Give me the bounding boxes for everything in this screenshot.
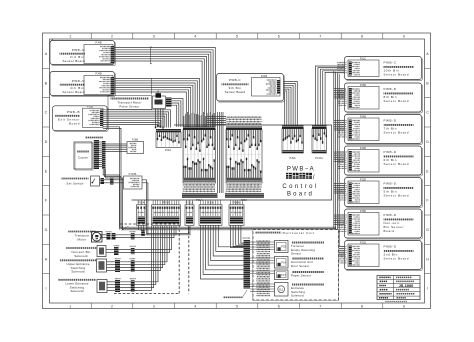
wires motor	[100, 234, 107, 236]
svg-text:G: G	[426, 228, 429, 232]
svg-text:4: 4	[194, 305, 196, 309]
svg-text:Sensor Board: Sensor Board	[384, 99, 410, 103]
svg-text:PJ6B: PJ6B	[132, 137, 138, 141]
connector PJ1A body	[183, 130, 216, 183]
wires non-sort solenoid	[106, 249, 114, 251]
label lower entrance switching solenoid	[58, 279, 96, 281]
svg-text:/Horizontal Unit: /Horizontal Unit	[282, 231, 315, 235]
label seigyo kiban kanji	[286, 173, 292, 179]
svg-text:Door Sensor: Door Sensor	[291, 264, 309, 268]
svg-text:PJ4A: PJ4A	[165, 148, 171, 152]
svg-text:PJ1A: PJ1A	[196, 198, 202, 202]
pin stub text PWB-D 7th Bin Sensor Board	[337, 120, 347, 122]
svg-text:PC6: PC6	[281, 246, 286, 249]
wires between PJ1A and PJ8A	[217, 112, 219, 193]
svg-text:H: H	[45, 257, 48, 261]
svg-text:4: 4	[194, 34, 196, 38]
wires set switch to PJ11A	[142, 180, 189, 234]
svg-text:Sensor Board: Sensor Board	[384, 162, 410, 166]
svg-text:7: 7	[319, 34, 321, 38]
label above horizontal unit strip	[243, 237, 251, 239]
label upper entrance switching solenoid	[60, 259, 96, 261]
svg-text:PWB-D: PWB-D	[384, 213, 397, 217]
svg-text:PJ2D: PJ2D	[360, 177, 366, 181]
pin table below PJ1A	[184, 184, 216, 186]
svg-text:Sensor Board: Sensor Board	[384, 72, 410, 76]
pin stub text PWB-D Non-sort Bin Sensor Board	[337, 214, 347, 216]
svg-text:JS-1000: JS-1000	[399, 283, 414, 288]
connector PJ1A top strip	[183, 127, 216, 130]
wires copier strips	[99, 141, 102, 143]
svg-text:I: I	[46, 287, 47, 291]
board PWB-C 10th Bin Sensor Board	[347, 59, 423, 81]
svg-text:C: C	[45, 111, 48, 115]
inline connectors on solenoid bundles	[131, 233, 135, 239]
board PWB-D 4th Bin Sensor Board	[52, 74, 116, 97]
pin stub text PWB-D 5th Bin Sensor Board	[337, 183, 347, 185]
wires copier to PJ6B	[106, 143, 128, 145]
wires PJ2A down to horizontal unit	[201, 226, 244, 280]
svg-text:6: 6	[278, 34, 280, 38]
connector motor a	[107, 233, 111, 240]
dashed box horizontal unit	[253, 230, 339, 301]
dashed unit boundary lower-left	[114, 292, 179, 294]
connector upper solenoid	[115, 260, 120, 272]
svg-text:7: 7	[319, 305, 321, 309]
label horizontal unit	[255, 232, 281, 234]
top ruler numbers	[43, 33, 431, 309]
svg-text:PJ8A: PJ8A	[241, 198, 247, 202]
svg-text:PJ5D: PJ5D	[360, 83, 366, 87]
svg-text:1: 1	[69, 34, 71, 38]
svg-text:/: /	[313, 174, 315, 181]
pin text column horizontal unit	[257, 240, 271, 242]
svg-text:PWB-D: PWB-D	[384, 244, 397, 248]
wires into PJ1A top	[183, 116, 185, 127]
svg-text:PJ3B: PJ3B	[87, 104, 93, 108]
svg-text:PWB-C: PWB-C	[229, 78, 241, 82]
wires 9th bin board to PJ9A	[284, 82, 298, 126]
svg-text:Pulse Sensor: Pulse Sensor	[119, 104, 139, 108]
svg-text:Sensor Board: Sensor Board	[62, 59, 85, 63]
svg-text:Board: Board	[384, 229, 395, 233]
board PWB-C 9th Bin Sensor Board	[219, 76, 285, 103]
connector PJ10A	[312, 126, 327, 129]
sensor SL1	[275, 283, 289, 297]
board PWB-A outline	[132, 125, 332, 200]
sensor PC4	[275, 257, 289, 269]
junction ticks on bundles	[150, 46, 152, 48]
switch SW set	[91, 176, 100, 186]
svg-text:5: 5	[236, 305, 238, 309]
block copier	[75, 143, 93, 170]
board PWB-D Non-sort Bin Sensor Board	[347, 211, 423, 239]
svg-text:8: 8	[361, 34, 363, 38]
wires set switch	[100, 179, 101, 181]
svg-text:PJ4D: PJ4D	[360, 114, 366, 118]
board PWB-B Exit Sensor Board	[55, 108, 109, 132]
page ref text bottom right	[385, 301, 407, 303]
title block table	[377, 276, 420, 300]
wires lower solenoid	[107, 281, 115, 283]
label copier relay	[85, 137, 103, 139]
svg-text:Solenoid: Solenoid	[74, 254, 87, 258]
label non-sort bin solenoid	[66, 247, 97, 249]
svg-text:1: 1	[69, 305, 71, 309]
connector strip horizontal unit	[244, 240, 251, 289]
connector PJ8A top strip	[226, 127, 262, 130]
wire bundle 4th-bin board to PJ8A	[115, 79, 200, 127]
connector PJ4A	[156, 129, 181, 132]
svg-text:Motor: Motor	[78, 237, 87, 241]
wires pulse sensor to PJ4A	[172, 99, 184, 127]
svg-text:PJ1D: PJ1D	[360, 240, 366, 244]
connector motor b	[112, 233, 116, 240]
board PWB-D 5th Bin Sensor Board	[347, 180, 423, 208]
micro labels on connectors	[106, 231, 112, 233]
wires PJ10A riser to 10th bin board	[316, 66, 352, 126]
wire bundle 3rd-bin board to PJ8A	[114, 48, 215, 127]
connector copier strip	[94, 140, 99, 169]
solenoid SL3 lower entrance	[97, 280, 107, 293]
svg-text:9: 9	[403, 34, 405, 38]
board PWB-D 8th Bin Sensor Board	[347, 85, 423, 113]
svg-text:PWB−D: PWB−D	[72, 48, 86, 52]
svg-text:C: C	[426, 111, 429, 115]
pin table above PJ8A	[227, 116, 262, 118]
pin table below PJ8A	[227, 184, 262, 186]
svg-text:2: 2	[111, 305, 113, 309]
svg-text:I: I	[427, 287, 428, 291]
svg-text:Sensor Board: Sensor Board	[225, 90, 246, 94]
svg-text:PJ4B: PJ4B	[95, 72, 101, 76]
inline connector set-switch bundle	[141, 230, 145, 236]
svg-text:PJ3D: PJ3D	[360, 146, 366, 150]
svg-text:PWB−D: PWB−D	[72, 79, 86, 83]
connector PJ1A bottom strip on board edge	[182, 193, 218, 197]
svg-text:Sensor Board: Sensor Board	[384, 193, 410, 197]
leader label PJ1C 1VNB	[223, 296, 243, 298]
wires PJ3A down	[138, 226, 140, 230]
svg-text:3: 3	[153, 34, 155, 38]
wire bundle copier down	[103, 169, 119, 230]
board PWB-D 6th Bin Sensor Board	[347, 148, 423, 176]
svg-text:Copier: Copier	[78, 156, 88, 160]
svg-text:Set Switch: Set Switch	[66, 181, 83, 185]
leader line near motor	[122, 226, 129, 231]
pin stub text PWB-D 2nd Bin Sensor Board	[337, 246, 347, 248]
svg-text:PJ7A: PJ7A	[163, 201, 170, 205]
svg-text:3: 3	[153, 305, 155, 309]
connector lower solenoid	[115, 280, 120, 292]
svg-text:5: 5	[236, 34, 238, 38]
svg-text:9: 9	[403, 305, 405, 309]
svg-text:H: H	[426, 257, 429, 261]
svg-text:Board: Board	[287, 191, 314, 197]
svg-text:PJ10A: PJ10A	[315, 156, 323, 160]
wire staircase motor+solenoids to PJ7A	[116, 226, 177, 235]
svg-text:PJ1C: PJ1C	[360, 56, 366, 60]
svg-text:PWB-D: PWB-D	[384, 118, 397, 122]
svg-text:Sensor Board: Sensor Board	[384, 130, 410, 134]
label PWB-A control board	[287, 166, 315, 172]
svg-text:PJ13B: PJ13B	[129, 172, 137, 176]
pin stub text PWB-D 6th Bin Sensor Board	[337, 151, 347, 153]
svg-text:PJ4B: PJ4B	[95, 41, 101, 45]
svg-text:PWB-C: PWB-C	[384, 60, 397, 64]
wires PJ6A down to horizontal unit	[231, 226, 244, 248]
wire bundle riser right side	[333, 71, 335, 251]
connector PJ6B	[127, 142, 144, 154]
wires exit-sensor split to channel	[103, 127, 120, 226]
svg-text:Sensor Board: Sensor Board	[384, 256, 410, 260]
svg-text:PC7: PC7	[281, 274, 286, 277]
sensor PC transport pulse	[153, 96, 166, 109]
svg-text:PWB−A: PWB−A	[287, 166, 315, 172]
svg-text:PJ9A: PJ9A	[289, 156, 295, 160]
svg-text:PJ6A: PJ6A	[233, 201, 240, 205]
svg-text:D: D	[426, 140, 429, 144]
svg-text:Board: Board	[69, 121, 80, 125]
border frame inner	[50, 39, 425, 303]
solenoid SL1 non-sort	[97, 246, 106, 257]
board PWB-D 7th Bin Sensor Board	[347, 117, 423, 145]
svg-text:Solenoid: Solenoid	[291, 294, 304, 298]
svg-text:Solenoid: Solenoid	[71, 270, 84, 274]
svg-text:PWB-D: PWB-D	[384, 181, 397, 185]
svg-text:Solenoid: Solenoid	[70, 289, 83, 293]
svg-text:Sensor: Sensor	[291, 252, 301, 256]
svg-text:8: 8	[361, 305, 363, 309]
svg-text:SL1: SL1	[279, 288, 284, 292]
connector PJ9A	[282, 126, 304, 129]
svg-text:D: D	[45, 140, 48, 144]
sensor PC7	[275, 270, 289, 280]
svg-text:G: G	[45, 228, 48, 232]
svg-text:Sensor Board: Sensor Board	[62, 90, 85, 94]
sensor PC6	[275, 241, 289, 253]
svg-text:Control: Control	[282, 184, 318, 190]
wire bundle exit-sensor board to PJ4A	[103, 110, 171, 128]
label set switch	[62, 178, 89, 180]
pin stub text PWB-C 10th Bin Sensor Board	[337, 62, 347, 64]
board PWB-D 2nd Bin Sensor Board	[347, 243, 423, 271]
border frame outer	[43, 33, 431, 309]
svg-text:PWB-D: PWB-D	[384, 87, 397, 91]
connector PJ8A bottom strip on board edge	[225, 193, 264, 197]
connector PJ13B	[124, 176, 143, 189]
connector set switch a	[101, 178, 105, 184]
wires into PJ8A table	[207, 116, 226, 118]
svg-text:6: 6	[278, 305, 280, 309]
connector copier strip 2	[102, 141, 106, 169]
svg-text:PWB−B: PWB−B	[67, 110, 80, 114]
svg-text:PC4: PC4	[281, 261, 286, 264]
connector non-sort solenoid	[114, 247, 119, 255]
wires channel from copier bundle	[120, 226, 337, 227]
svg-text:PWB-D: PWB-D	[384, 150, 397, 154]
label transport motor	[68, 231, 96, 233]
board PWB-D 3rd Bin Sensor Board	[52, 43, 116, 66]
pin stub text PWB-D 8th Bin Sensor Board	[337, 88, 347, 90]
label transport motor pulse sensor	[108, 96, 152, 110]
motor M1 transport	[92, 232, 103, 243]
svg-text:PJ6D: PJ6D	[360, 209, 366, 213]
svg-text:Paper Sensor: Paper Sensor	[291, 274, 311, 278]
dashed unit boundary pwb-a lower	[188, 227, 190, 293]
wires strip to items	[250, 241, 275, 243]
connector pulse sensor	[166, 98, 172, 108]
solenoid SL2 upper entrance	[97, 259, 107, 272]
wires upper solenoid	[107, 261, 116, 263]
wires riser taps to boards	[334, 88, 348, 90]
connector PJ8A body	[226, 130, 262, 183]
svg-text:2: 2	[111, 34, 113, 38]
connector set switch b	[110, 178, 114, 185]
